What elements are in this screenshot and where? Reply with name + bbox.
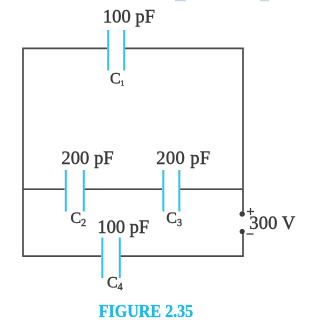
wire right edge upper [242,48,244,212]
svg-text:C1: C1 [110,71,125,88]
svg-text:100 pF: 100 pF [97,218,149,238]
svg-text:C2: C2 [71,210,87,229]
svg-text:100 pF: 100 pF [103,8,155,28]
svg-text:200 pF: 200 pF [61,149,113,169]
node plus terminal dot [240,211,245,216]
svg-text:300 V: 300 V [249,214,296,234]
capacitor C4 plates [102,238,120,279]
wire left edge [22,48,24,257]
svg-text:C3: C3 [166,210,182,229]
capacitor C3 plates [163,170,179,212]
minus sign [247,233,254,235]
wire top-right segment [125,47,243,49]
wire bottom-left segment [23,255,101,257]
top edge artifact marks [175,0,186,1]
svg-text:200 pF: 200 pF [156,149,210,169]
wire middle-left segment [23,188,65,190]
wire middle-right segment [180,188,243,190]
capacitor C2 plates [66,170,84,212]
wire middle-center segment [85,188,163,190]
wire bottom-right segment [121,255,244,257]
node minus terminal dot [240,229,245,234]
wire top-left segment [23,47,107,49]
wire right edge lower [242,234,244,257]
svg-text:FIGURE 2.35: FIGURE 2.35 [99,301,194,321]
plus sign [247,208,254,215]
capacitor C1 plates [108,30,124,71]
